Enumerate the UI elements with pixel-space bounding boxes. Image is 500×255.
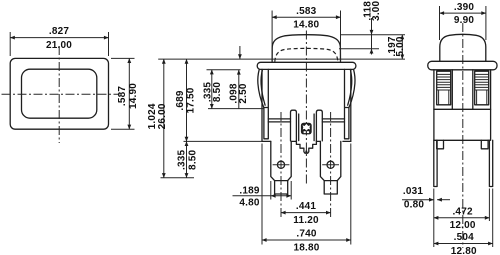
svg-text:26.00: 26.00 xyxy=(157,103,168,129)
svg-text:.031: .031 xyxy=(403,186,424,197)
svg-text:14.80: 14.80 xyxy=(293,20,319,31)
dim .118 / 3.00 dimension line xyxy=(371,18,373,55)
right snap wing outer xyxy=(349,70,355,108)
dim .441 / 11.20 dimension line xyxy=(281,212,331,214)
dim .335 / 8.50 lower dimension line xyxy=(186,141,188,177)
panel cutout inner rounded rectangle xyxy=(22,69,97,118)
extension line flange bottom left xyxy=(207,69,241,71)
dim .390 / 9.90 extension lines xyxy=(439,6,441,40)
body bottom line segments xyxy=(262,140,351,142)
right box window xyxy=(477,90,487,105)
left terminal edge-on xyxy=(434,140,437,186)
dim .827 / 21.00 dimension line xyxy=(10,37,108,39)
svg-text:.587: .587 xyxy=(117,86,128,107)
svg-text:12.00: 12.00 xyxy=(450,220,476,231)
right lug hole xyxy=(327,161,334,168)
dim .189 / 4.80 extension lines xyxy=(270,181,272,200)
svg-text:.689: .689 xyxy=(175,90,186,111)
svg-text:4.80: 4.80 xyxy=(239,198,260,209)
interior vertical left xyxy=(451,70,453,110)
svg-text:.189: .189 xyxy=(239,185,260,196)
extension line body bottom left xyxy=(184,140,263,142)
svg-text:.504: .504 xyxy=(454,232,475,243)
right terminal centerline xyxy=(330,112,332,219)
svg-text:2.50: 2.50 xyxy=(238,83,249,104)
dim .390 / 9.90 dimension line xyxy=(440,12,486,14)
left ribs xyxy=(437,74,451,90)
right ribs xyxy=(475,74,489,90)
right lug fold line xyxy=(324,180,337,182)
vertical centerline xyxy=(58,46,60,143)
left lug hole xyxy=(277,161,284,168)
left ribbed box xyxy=(437,71,451,105)
left lug fold line xyxy=(275,180,288,182)
dim .197 / 5.00 dimension line xyxy=(401,35,403,59)
svg-text:.472: .472 xyxy=(452,206,473,217)
extension line wing tip left xyxy=(208,108,264,110)
right hook below body xyxy=(481,140,488,149)
vertical centerline xyxy=(462,23,464,248)
interior left wall xyxy=(264,69,268,138)
vertical centerline xyxy=(305,31,307,186)
left snap wing outer xyxy=(258,70,264,108)
left lug hole cross line xyxy=(273,164,290,166)
dim .583 / 14.80 extension lines xyxy=(271,11,273,62)
svg-text:.827: .827 xyxy=(49,26,70,37)
svg-text:5.00: 5.00 xyxy=(395,36,406,57)
left terminal centerline xyxy=(280,112,282,219)
dim .504 / 12.80 dimension line xyxy=(434,243,493,245)
svg-text:11.20: 11.20 xyxy=(293,215,319,226)
mounting flange xyxy=(257,62,356,69)
interior right wall xyxy=(345,69,349,138)
dim .031 / 0.80 dimension line with outside arrows xyxy=(402,199,434,201)
dim .472 / 12.00 dimension line xyxy=(434,217,490,219)
svg-text:3.00: 3.00 xyxy=(371,0,382,21)
dim .587 / 14.90 extension lines xyxy=(111,57,135,59)
button dome pressed position (hidden line) xyxy=(275,48,338,61)
svg-text:9.90: 9.90 xyxy=(454,15,475,26)
dim .827 / 21.00 extension lines xyxy=(9,32,11,56)
center square window xyxy=(301,123,312,135)
right ribbed box xyxy=(475,71,489,105)
extension line pressed apex right xyxy=(339,48,379,50)
extension line lug bottom left xyxy=(161,177,195,179)
dim .583 / 14.80 dimension line xyxy=(272,16,340,18)
dim 1.024 / 26.00 dimension line xyxy=(163,59,165,178)
svg-text:8.50: 8.50 xyxy=(187,149,198,170)
left post xyxy=(291,110,297,141)
left faston lug xyxy=(271,141,291,194)
svg-text:14.90: 14.90 xyxy=(128,83,139,109)
right lug hole cross line xyxy=(322,164,339,166)
svg-text:.441: .441 xyxy=(296,201,317,212)
left crossbar xyxy=(268,119,290,122)
body left edge xyxy=(261,69,263,141)
left box window xyxy=(439,90,449,105)
svg-text:.740: .740 xyxy=(296,229,317,240)
svg-text:21.00: 21.00 xyxy=(46,40,72,51)
dim .504 / 12.80 extension line right xyxy=(492,189,494,248)
body right edge xyxy=(350,69,352,141)
dim .740 / 18.80 dimension line xyxy=(262,239,351,241)
right terminal edge-on xyxy=(489,140,492,186)
dim .689 / 17.50 dimension line xyxy=(186,59,188,141)
button cap side xyxy=(440,34,486,61)
right post xyxy=(316,110,322,141)
svg-text:.583: .583 xyxy=(296,6,317,17)
svg-text:8.50: 8.50 xyxy=(212,82,223,103)
dim .472 / 12.00 extension lines xyxy=(433,189,435,248)
interior step line xyxy=(434,108,491,110)
horizontal centerline xyxy=(2,93,120,95)
svg-text:.390: .390 xyxy=(454,2,475,13)
center square insert star cutout xyxy=(303,124,311,131)
left snap wing inner xyxy=(261,70,265,106)
button dome xyxy=(272,35,340,63)
dim .189 / 4.80 dimension line xyxy=(233,195,292,197)
dim .587 / 14.90 dimension line xyxy=(128,58,130,129)
svg-text:.335: .335 xyxy=(176,149,187,170)
dim .335 / 8.50 upper dimension line xyxy=(211,70,213,109)
right crossbar xyxy=(322,119,344,122)
interior vertical right xyxy=(472,70,474,110)
center housing walls xyxy=(299,114,314,141)
svg-text:12.80: 12.80 xyxy=(451,246,477,255)
right snap wing inner xyxy=(348,70,352,106)
extension line dome apex right xyxy=(341,34,405,36)
right faston lug xyxy=(320,141,340,194)
center terminal tab xyxy=(296,141,316,153)
dim .098 / 2.50 dimension line xyxy=(238,70,240,109)
dim .740 / 18.80 extension lines xyxy=(261,144,263,245)
svg-text:18.80: 18.80 xyxy=(293,243,319,254)
panel cutout outer rounded rectangle xyxy=(10,58,108,129)
left hook below body xyxy=(437,140,444,149)
svg-text:0.80: 0.80 xyxy=(404,199,425,210)
panel reference line xyxy=(158,58,405,60)
mounting flange side xyxy=(428,61,497,70)
svg-text:17.50: 17.50 xyxy=(186,87,197,113)
body side outline xyxy=(434,70,491,141)
